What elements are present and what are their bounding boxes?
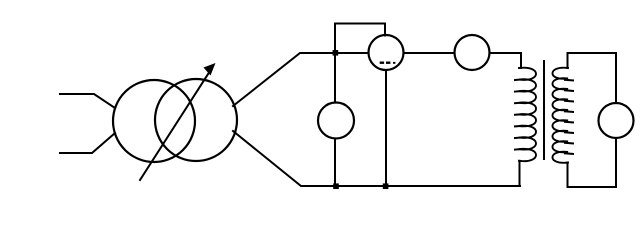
node junction bottom left xyxy=(333,183,339,189)
transformer T2 primary crossover ticks xyxy=(515,79,522,149)
voltmeter V2 xyxy=(599,103,634,138)
wattmeter W1 xyxy=(369,35,404,70)
voltmeter V1 xyxy=(318,103,354,139)
wire ammeter to transformer primary xyxy=(490,53,522,68)
variac T1 left circle xyxy=(113,80,195,162)
transformer T2 core xyxy=(543,61,545,159)
transformer T2 secondary winding xyxy=(552,68,568,163)
node junction top xyxy=(333,50,339,56)
wire V1 branch top xyxy=(334,55,336,103)
wire wattmeter bottom branch xyxy=(385,70,387,186)
wire variac to top rail xyxy=(233,53,369,106)
wire variac to bottom rail xyxy=(233,131,520,186)
ammeter A1 xyxy=(455,35,490,70)
wire secondary top tail to V2 xyxy=(568,53,617,103)
wire input top xyxy=(60,94,115,108)
transformer T2 secondary crossover ticks xyxy=(565,80,573,154)
wire V1 branch bottom xyxy=(334,139,336,187)
wire secondary bottom tail to V2 xyxy=(568,139,617,188)
variac T1 right circle xyxy=(155,79,237,161)
wire input bottom xyxy=(60,133,115,153)
transformer T2 primary winding xyxy=(519,68,536,161)
wattmeter W1 scale marks xyxy=(380,62,396,64)
wire wattmeter voltage-coil loop xyxy=(335,24,385,53)
wire wattmeter to ammeter xyxy=(404,52,455,54)
wire primary bottom tail xyxy=(519,161,521,186)
node junction bottom right xyxy=(383,183,389,189)
variac adjustment arrow xyxy=(140,63,216,180)
